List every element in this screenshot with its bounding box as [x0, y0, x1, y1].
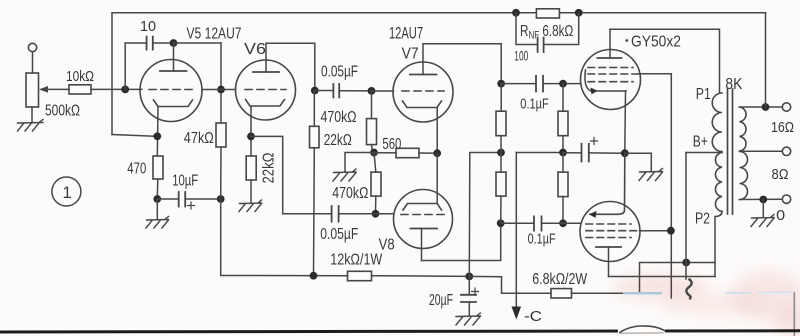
- svg-text:560: 560: [382, 136, 401, 153]
- V6 grid: [245, 89, 286, 91]
- triode V7 envelope: [393, 62, 453, 122]
- triode V5 envelope: [140, 60, 202, 122]
- resistor 12k/1W: [348, 271, 372, 280]
- node GY50 cathodes: [621, 149, 629, 157]
- V8 cathode lead up: [436, 153, 438, 203]
- capacitor 10uF wires: [157, 198, 178, 200]
- wires 470k upper: [371, 91, 373, 119]
- wire cathode node to ground: [625, 153, 652, 170]
- GY50 lower cathode lead (from node): [590, 153, 625, 214]
- node V8 grid: [372, 210, 380, 218]
- ground under 470: [146, 217, 169, 229]
- V7 grid: [402, 90, 444, 92]
- input terminal J1: [28, 43, 36, 51]
- 16 ohm tap wire: [740, 106, 783, 108]
- V8 anode wire to coupling node: [422, 223, 501, 260]
- grey edge line right: [793, 293, 795, 336]
- GY50 upper cathode lead: [624, 91, 627, 153]
- -C supply arrow: [515, 153, 517, 308]
- svg-text:RNF 6.8kΩ: RNF 6.8kΩ: [520, 21, 573, 42]
- bottom border bar: [0, 331, 800, 332]
- V7 anode wire up over: [423, 44, 501, 84]
- V6 cathode lead: [250, 106, 252, 156]
- svg-text:-C: -C: [524, 308, 542, 325]
- wires 470k lower: [374, 153, 376, 173]
- resistor 22k anode load: [310, 126, 320, 148]
- resistor 6.8k/2W: [551, 289, 572, 298]
- node bias mid: [559, 149, 567, 157]
- resistor 470: [153, 156, 163, 179]
- svg-text:0.05µF: 0.05µF: [321, 63, 358, 80]
- pot wiper arrow: [45, 88, 69, 90]
- wire V6 cathode to V8 coupling: [251, 136, 331, 213]
- svg-text:10µF: 10µF: [172, 173, 198, 190]
- GY50 lower anode: [596, 246, 621, 248]
- wire corner down to V5-V6 link: [220, 43, 222, 123]
- svg-text:0.05µF: 0.05µF: [320, 226, 358, 243]
- resistor 22k cathode: [246, 156, 256, 180]
- scan smudge pink A: [612, 270, 800, 336]
- capacitor 10uF plates: [178, 192, 180, 207]
- svg-text:10kΩ: 10kΩ: [66, 68, 94, 85]
- svg-text:470kΩ: 470kΩ: [332, 185, 368, 202]
- capacitor 0.1uF upper plates: [535, 76, 537, 92]
- node 16 ohm feedback: [762, 103, 770, 111]
- V8 cathode (inverted): [403, 204, 442, 211]
- feedback loop top wire: [112, 12, 766, 14]
- GY50 lower anode wire to P2: [609, 276, 716, 278]
- svg-text:0.1µF: 0.1µF: [520, 95, 549, 112]
- label GY50x2: [625, 39, 628, 42]
- V7 cathode: [403, 101, 442, 108]
- resistor 560: [396, 148, 419, 157]
- wire 22k load to rail: [313, 91, 315, 127]
- node V6 anode/0.05 coupling: [311, 87, 319, 95]
- GY50 upper screen wire: [639, 74, 672, 298]
- terminal 16 ohm: [782, 103, 790, 111]
- V7 anode: [422, 44, 424, 75]
- ground at tail: [333, 169, 356, 181]
- resistor 470k upper: [367, 119, 377, 145]
- resistor 10k: [69, 85, 91, 94]
- node rail 20uF: [465, 273, 473, 281]
- plus sign 20uF: [472, 288, 479, 295]
- node V5 cathode/feedback: [153, 132, 161, 140]
- node V5 anode top: [170, 39, 178, 47]
- wire 10k to V5 grid: [91, 88, 142, 90]
- triode V6 envelope: [236, 60, 296, 120]
- triode V8 envelope: [394, 190, 453, 249]
- GY50 lower grids: [586, 223, 631, 225]
- capacitor 0.1uF lower plates: [533, 216, 535, 230]
- bottom supply rail: [372, 275, 470, 278]
- node 10uF/47k/rail: [217, 195, 225, 203]
- node input/10p junction: [121, 86, 129, 94]
- resistor V7 anode load: [496, 111, 506, 136]
- wire rail feed up column: [469, 153, 501, 277]
- rail jog to 6.8k/2W: [469, 276, 551, 293]
- svg-text:V5 12AU7: V5 12AU7: [187, 26, 242, 43]
- ground under pot: [18, 120, 44, 132]
- resistor grid lower: [558, 172, 568, 197]
- resistor 470k lower: [371, 172, 381, 196]
- capacitor 100 loop: [516, 13, 579, 45]
- wire 470 to ground node: [156, 179, 159, 199]
- feedback wire from 16 ohm: [765, 13, 767, 107]
- wire to V7 grid: [372, 90, 394, 92]
- svg-text:500kΩ: 500kΩ: [45, 102, 80, 119]
- svg-text:6.8kΩ/2W: 6.8kΩ/2W: [532, 271, 587, 288]
- svg-text:8Ω: 8Ω: [772, 166, 789, 183]
- plus sign bias cap: [591, 138, 598, 145]
- blue artifact line right: [726, 292, 750, 294]
- transformer core: [727, 89, 729, 214]
- capacitor 0.05uF upper wires: [315, 90, 333, 92]
- terminal 0: [782, 195, 790, 203]
- V8 grid: [401, 214, 445, 216]
- wire pot to ground: [31, 107, 33, 123]
- V5 grid: [149, 89, 192, 91]
- wire tail to ground: [345, 153, 374, 172]
- wire node to ground: [156, 199, 158, 219]
- node upper grid resistor: [559, 80, 567, 88]
- V6 anode: [265, 43, 267, 72]
- terminal 8 ohm: [782, 147, 790, 155]
- node V7 anode coupling: [497, 80, 505, 88]
- node anode loads mid: [497, 149, 505, 157]
- potentiometer 500k body: [26, 73, 39, 107]
- svg-text:100: 100: [514, 48, 528, 63]
- svg-text:P1: P1: [696, 86, 711, 103]
- wire input to potentiometer: [32, 52, 34, 73]
- node V5 anode to V6 grid: [217, 86, 225, 94]
- svg-text:470kΩ: 470kΩ: [321, 109, 357, 126]
- svg-text:12AU7: 12AU7: [389, 25, 423, 43]
- svg-text:P2: P2: [695, 211, 710, 228]
- svg-text:B+: B+: [693, 134, 708, 151]
- wire 10p stub vertical: [124, 43, 126, 89]
- svg-text:22kΩ: 22kΩ: [324, 132, 352, 149]
- wire 22k to ground: [250, 180, 252, 202]
- wire cap to V5 anode node: [153, 42, 173, 44]
- pentode GY50 upper envelope: [581, 50, 641, 110]
- wire 0 tap to ground: [762, 200, 764, 217]
- wire V5 to V6: [202, 89, 236, 91]
- transformer secondary coil: [740, 107, 748, 200]
- svg-text:470: 470: [127, 160, 146, 177]
- wire 10p stub horizontal: [125, 42, 146, 44]
- squiggle wire end: [686, 280, 691, 299]
- svg-text:47kΩ: 47kΩ: [184, 130, 214, 147]
- svg-text:V7: V7: [402, 46, 419, 63]
- V6 cathode: [246, 100, 285, 107]
- wire -C to bias node: [516, 152, 563, 154]
- capacitor 20uF: [468, 276, 470, 294]
- svg-text:22kΩ: 22kΩ: [261, 153, 278, 184]
- svg-text:20µF: 20µF: [429, 292, 453, 309]
- node V6 cathode: [247, 133, 255, 141]
- svg-text:16Ω: 16Ω: [771, 119, 794, 136]
- wire 47k bottom: [220, 147, 222, 199]
- V7 cathode lead: [436, 108, 438, 154]
- B+ tap wire: [686, 152, 722, 154]
- capacitor 10 plates: [146, 37, 148, 50]
- GY50 upper anode: [609, 29, 611, 58]
- V5 cathode lead: [156, 107, 159, 157]
- capacitor bias bypass wires: [563, 152, 581, 154]
- wire loop to V5 cathode: [112, 135, 157, 137]
- V5 cathode: [154, 100, 193, 107]
- wire 0.05 lower to V8: [339, 213, 394, 215]
- GY50 upper cathode: [585, 70, 626, 91]
- ground under 20uF: [456, 313, 481, 325]
- pentode GY50 lower envelope: [580, 202, 640, 262]
- blue artifact line left: [624, 292, 661, 294]
- resistor V8 anode load: [496, 172, 506, 196]
- svg-text:12kΩ/1W: 12kΩ/1W: [330, 252, 382, 269]
- capacitor bias bypass plates: [581, 144, 583, 162]
- V6 anode wire up and over: [266, 43, 315, 90]
- resistor grid upper: [558, 111, 568, 136]
- svg-text:GY50x2: GY50x2: [631, 34, 681, 51]
- svg-text:10: 10: [140, 18, 156, 35]
- ground under V6 22k: [239, 200, 262, 212]
- transformer T1 primary coil: [712, 93, 722, 211]
- wire anode node to corner: [174, 42, 222, 44]
- node tail junction: [370, 149, 378, 157]
- B+ vertical: [685, 153, 687, 280]
- feedback loop left vertical: [111, 13, 113, 135]
- node rail 22k: [310, 272, 318, 280]
- resistor 47k: [216, 123, 226, 147]
- wire 6.8k to corner: [572, 263, 716, 294]
- capacitor 0.05uF lower plates: [331, 206, 333, 222]
- 8 ohm tap wire: [740, 150, 783, 152]
- 0 tap wire: [740, 198, 783, 200]
- node V8 anode coupling: [497, 219, 505, 227]
- node 470/10uF/ground: [153, 195, 161, 203]
- V8 anode (bottom): [411, 228, 438, 230]
- figure number circle 1: [52, 177, 81, 206]
- node lower grid: [559, 219, 567, 227]
- GY50 upper grids: [588, 67, 633, 69]
- ground under secondary: [751, 215, 774, 227]
- capacitor 0.1uF lower wires: [501, 222, 534, 224]
- node V7/V8 cathodes: [433, 149, 441, 157]
- bottom arc artifact: [620, 326, 665, 332]
- P2 bottom lead: [715, 211, 722, 276]
- svg-text:0.1µF: 0.1µF: [528, 231, 556, 248]
- wires 560: [374, 152, 396, 154]
- V5 anode: [173, 43, 175, 71]
- node 0 tap ground: [759, 196, 767, 204]
- GY50 upper anode top wire: [610, 29, 720, 93]
- node B+ line and anode jog: [682, 259, 690, 267]
- plus sign 10uF: [188, 202, 195, 209]
- GY50 lower screen wire: [640, 230, 671, 232]
- node screens bus: [667, 227, 675, 235]
- svg-text:1: 1: [63, 184, 72, 202]
- node V7 grid/470k: [368, 87, 376, 95]
- wire rail feed left: [221, 199, 348, 276]
- white gap in bar: [620, 329, 663, 334]
- svg-text:0: 0: [776, 207, 785, 224]
- resistor RNF 6.8k network: [512, 9, 520, 17]
- ground GY50 cathode: [639, 169, 663, 181]
- capacitor 0.05uF upper plates: [332, 84, 334, 97]
- capacitor 0.1uF upper wires: [501, 83, 535, 85]
- svg-text:V6: V6: [244, 41, 266, 58]
